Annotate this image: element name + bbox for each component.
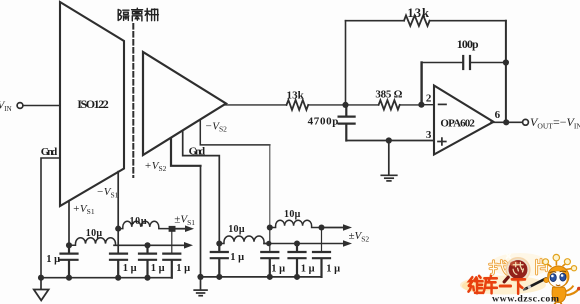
svg-text:13k: 13k bbox=[287, 89, 305, 101]
wire R3 leads bbox=[346, 104, 379, 106]
svg-text:100p: 100p bbox=[457, 37, 479, 51]
wire feedback loop left vertical bbox=[345, 21, 347, 105]
op-amp U2 plus sign bbox=[438, 138, 446, 145]
inductor L4 10u bbox=[270, 220, 322, 227]
wire ground rail 1 bbox=[41, 277, 172, 279]
label isolation barrier text (Chinese: ge li shan) bbox=[118, 8, 158, 21]
node D junction pin2 100p bbox=[418, 102, 424, 108]
svg-text:13k: 13k bbox=[407, 6, 429, 20]
svg-text:10μ: 10μ bbox=[284, 209, 301, 220]
capacitor C10 100p bbox=[463, 56, 470, 69]
node junction pin3 ground bbox=[386, 137, 392, 143]
capacitor C2 1u bbox=[110, 254, 127, 278]
watermark mascot bbox=[543, 254, 580, 304]
op-amp U1b ISO122 output amplifier triangle bbox=[143, 52, 226, 155]
capacitor C1 1u bbox=[61, 245, 78, 277]
svg-text:1 μ: 1 μ bbox=[46, 254, 60, 265]
capacitor C8 1u bbox=[313, 228, 330, 277]
watermark pen bbox=[524, 278, 549, 290]
watermark character zhao (find) outlined bbox=[490, 261, 508, 275]
watermark logo glow bbox=[460, 276, 546, 295]
resistor R1 13k bbox=[287, 100, 309, 110]
svg-text:10μ: 10μ bbox=[130, 216, 147, 227]
node VIN input terminal bbox=[17, 103, 23, 109]
svg-text:2: 2 bbox=[426, 93, 432, 105]
inductor L3 10u bbox=[219, 236, 266, 244]
svg-text:385 Ω: 385 Ω bbox=[375, 89, 402, 101]
node C junction 13k 4700p feedback bbox=[342, 102, 348, 108]
node junction output feedback bbox=[503, 119, 509, 125]
node junction 100p feedback bbox=[503, 59, 509, 65]
wire +VS2 pin stub bbox=[171, 139, 201, 166]
node junction lower VS2 rail left bbox=[266, 241, 271, 246]
svg-text:1 μ: 1 μ bbox=[271, 264, 285, 275]
wire U1b output to R1 bbox=[224, 104, 287, 106]
wire VIN to ISO122 bbox=[23, 105, 60, 107]
svg-text:1 μ: 1 μ bbox=[151, 263, 165, 274]
wire 100p branch horizontal left bbox=[422, 62, 463, 64]
ground symbol earth 2 bbox=[194, 277, 207, 296]
op-amp U2 OPA602 triangle bbox=[434, 86, 494, 155]
wire +VS1 pin stub bbox=[68, 201, 70, 246]
wire ground rail 2 bbox=[201, 276, 322, 278]
svg-text:1 μ: 1 μ bbox=[176, 263, 190, 274]
op-amp U2 minus sign bbox=[439, 103, 446, 105]
wire -VS1 pin stub bbox=[117, 172, 119, 254]
wire node D to pin 2 bbox=[421, 104, 434, 106]
svg-text:Gnd: Gnd bbox=[189, 145, 206, 157]
node VOUT output terminal bbox=[523, 119, 529, 125]
wire -VS2 pin stub bbox=[200, 120, 269, 144]
svg-text:4700p: 4700p bbox=[308, 115, 339, 127]
svg-text:10μ: 10μ bbox=[86, 228, 103, 239]
wire feedback loop right vertical bbox=[505, 21, 507, 123]
capacitor C3 1u bbox=[139, 245, 156, 277]
watermark magnifier circle with xin character bbox=[504, 254, 529, 282]
svg-text:www.dzsc.com: www.dzsc.com bbox=[492, 293, 559, 304]
svg-text:OPA602: OPA602 bbox=[440, 118, 475, 130]
svg-text:1 μ: 1 μ bbox=[326, 264, 340, 275]
node junction lower VS2 rail bbox=[294, 240, 300, 246]
svg-text:1 μ: 1 μ bbox=[301, 264, 315, 275]
svg-text:Gnd: Gnd bbox=[41, 146, 58, 158]
svg-text:3: 3 bbox=[426, 129, 432, 141]
node A junction +VS1 bbox=[66, 242, 72, 248]
capacitor C6 1u bbox=[261, 228, 278, 277]
capacitor C4 1u bbox=[163, 232, 180, 278]
node B junction -VS1 with L2 bbox=[115, 226, 121, 232]
svg-text:1 μ: 1 μ bbox=[123, 263, 137, 274]
wire +-VS2 upper arrow bbox=[322, 224, 353, 231]
wire feedback loop top left bbox=[346, 20, 405, 22]
wire 100p branch vertical bbox=[420, 63, 422, 105]
node junction on lower VS1 rail bbox=[144, 242, 150, 248]
wire pin 3 bbox=[346, 140, 434, 142]
node junction upper VS2 bbox=[318, 224, 324, 230]
ground symbol earth 3 bbox=[381, 141, 397, 181]
inductor L1 10u bbox=[69, 238, 118, 246]
svg-text:6: 6 bbox=[495, 109, 501, 121]
ground symbol chassis triangle bbox=[34, 278, 49, 301]
wire Gnd2 pin stub bbox=[183, 131, 220, 243]
wire +-VS1 upper arrow bbox=[176, 225, 195, 232]
wire feedback loop top right bbox=[430, 20, 506, 22]
inductor L2 10u bbox=[118, 221, 168, 228]
svg-text:10μ: 10μ bbox=[228, 224, 245, 235]
wire U2 output bbox=[491, 121, 522, 123]
isolation barrier dashed line bbox=[132, 24, 134, 177]
op-amp U1 ISO122 isolation amplifier body bbox=[60, 2, 124, 206]
watermark text weikuyixia (red) bbox=[468, 276, 524, 294]
watermark character pian (chip) outlined bbox=[537, 259, 547, 274]
node R junction -VS2 bbox=[267, 224, 273, 230]
wire lower VS1 rail with arrow bbox=[114, 242, 193, 249]
node P junction Gnd2 bbox=[216, 240, 222, 246]
svg-text:ISO122: ISO122 bbox=[77, 97, 109, 111]
resistor R2 13k feedback bbox=[404, 15, 430, 26]
capacitor C7 1u bbox=[289, 244, 306, 277]
capacitor C9 4700p bbox=[339, 105, 355, 141]
resistor R3 385 ohm bbox=[379, 100, 400, 109]
wire R1 to node C bbox=[308, 104, 345, 106]
wire Gnd stub of ISO122 bbox=[41, 158, 60, 278]
node square junction +-VS1 bbox=[169, 226, 176, 232]
capacitor C5 1u bbox=[211, 244, 228, 277]
wire 100p to feedback vertical bbox=[471, 62, 506, 64]
svg-text:1 μ: 1 μ bbox=[230, 252, 244, 263]
wire lower VS2 rail with arrow bbox=[264, 240, 352, 247]
